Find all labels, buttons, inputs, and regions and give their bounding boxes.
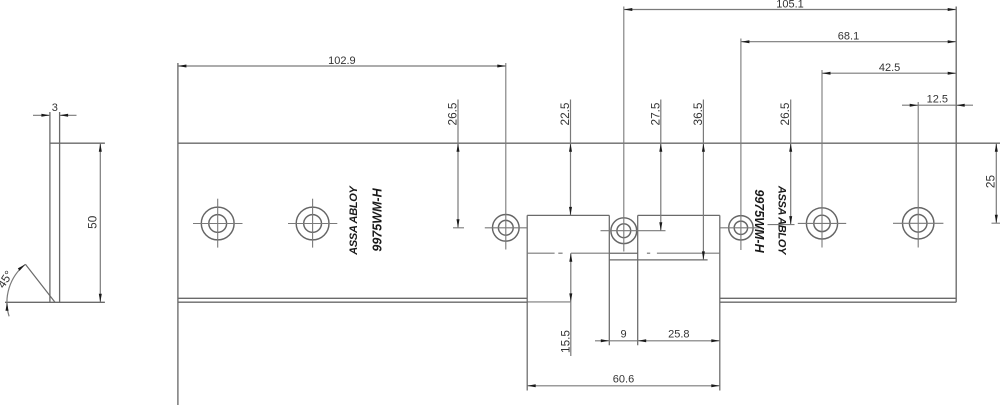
svg-text:3: 3 (52, 102, 58, 114)
hole 1 outer circle (201, 207, 234, 240)
hole 5 inner circle (734, 221, 747, 234)
center knuckle right edge (637, 215, 639, 345)
dimension 105.1 line (624, 9, 956, 11)
svg-text:22.5: 22.5 (558, 102, 572, 125)
svg-text:60.6: 60.6 (613, 374, 634, 386)
dimension 9 and 25.8 line (595, 340, 720, 342)
hole 5 outer circle (729, 216, 753, 240)
45 degree arc top arrow (18, 264, 26, 271)
dimension 3 line right tail (60, 114, 77, 116)
dimension 102.9 line (178, 65, 506, 67)
dimension 15.5 down arrow (569, 293, 572, 302)
dimension 25 tick (992, 222, 1000, 224)
plate left edge (177, 63, 179, 405)
svg-text:9975WM-H: 9975WM-H (371, 187, 385, 251)
hole 4 vertical centerline and 105.1 extension (623, 7, 625, 252)
dimension 12.5 right tail (956, 104, 973, 106)
dimension 60.6 right arrow (711, 384, 720, 387)
svg-text:9975WM-H: 9975WM-H (752, 189, 766, 253)
dimension 68.1 left arrow (741, 40, 750, 43)
dimension 25 down arrow (995, 215, 998, 224)
hinge pin centerline segment 2 (558, 252, 562, 254)
dimension 36.5 down arrow (702, 251, 705, 260)
dimension 50 line (99, 143, 101, 302)
hole 7 inner circle (909, 215, 927, 233)
hole 7 outer circle (903, 208, 934, 239)
dimension 12.5 line (902, 104, 956, 106)
svg-text:27.5: 27.5 (648, 102, 662, 125)
dimension 25 line (995, 143, 997, 223)
svg-text:12.5: 12.5 (927, 94, 948, 106)
plate right edge (955, 7, 957, 303)
dimension 9 left arrow (601, 339, 610, 342)
dimension 27.5 up arrow (659, 143, 662, 152)
dimension 60.6 line (527, 385, 720, 387)
dimension 26.5 right line (790, 100, 792, 225)
side view top edge (50, 142, 105, 144)
45 degree leader line (25, 264, 55, 302)
hole 3 horizontal centerline (485, 227, 527, 229)
hinge pin centerline segment 3 (571, 252, 609, 254)
hole 4 outer circle (611, 218, 637, 244)
dimension 25.8 left arrow (638, 339, 647, 342)
dimension 12.5 left arrow (910, 104, 919, 107)
hole 4 horizontal centerline (601, 230, 666, 232)
45 degree dimension arc (7, 264, 25, 316)
dimension 22.5 line (570, 100, 572, 216)
svg-text:50: 50 (86, 215, 100, 229)
dimension 50 down arrow (99, 294, 102, 303)
dimension 102.9 left arrow (178, 65, 187, 68)
plate top edge (178, 142, 1000, 144)
hole 6 inner circle (814, 215, 830, 231)
svg-text:ASSA ABLOY: ASSA ABLOY (775, 185, 787, 256)
hole 3 vertical centerline and 102.9 extension (505, 63, 507, 250)
dimension 42.5 right arrow (948, 72, 957, 75)
dimension 27.5 down arrow (659, 222, 662, 231)
svg-text:9: 9 (620, 329, 626, 341)
hole 3 outer circle (493, 215, 520, 242)
dimension 42.5 line (822, 72, 956, 74)
hole 1 horizontal centerline (193, 223, 243, 225)
dimension 26.5 left tick (453, 227, 464, 229)
dimension 102.9 right arrow (497, 65, 506, 68)
dimension 36.5 line (702, 100, 704, 260)
dimension 27.5 line (660, 100, 662, 231)
dimension 60.6 left arrow (527, 384, 536, 387)
hole 2 vertical centerline (312, 199, 314, 248)
dimension 105.1 left arrow (624, 8, 633, 11)
dimension 42.5 left arrow (822, 72, 831, 75)
dimension 15.5 line (570, 253, 572, 356)
dimension 26.5 right down arrow (789, 216, 792, 225)
knuckle left edge (526, 215, 528, 390)
hole 2 horizontal centerline (288, 223, 337, 225)
dimension 25.8 right arrow (711, 339, 720, 342)
plate bottom inner line right part (720, 297, 956, 299)
svg-text:42.5: 42.5 (879, 62, 900, 74)
hole 1 vertical centerline (217, 199, 219, 248)
hole 4 inner circle (617, 224, 631, 238)
knuckle bottom extension line (527, 301, 571, 303)
svg-text:102.9: 102.9 (328, 55, 356, 67)
dimension 68.1 right arrow (948, 40, 957, 43)
dimension 26.5 right up arrow (789, 143, 792, 152)
hole 5 vertical centerline and 68.1 extension (740, 39, 742, 251)
hole 3 inner circle (498, 220, 513, 235)
dimension 25 up arrow (995, 143, 998, 152)
hole 2 outer circle (296, 207, 329, 240)
dimension 26.5 right tick (768, 224, 795, 226)
svg-text:68.1: 68.1 (838, 31, 859, 43)
hinge pin centerline segment 1 (527, 252, 554, 254)
hinge pin centerline segment 5 (657, 252, 720, 254)
center knuckle left edge (608, 215, 610, 345)
hinge pin centerline segment 4 (647, 252, 650, 254)
45 degree arc bottom arrow (6, 302, 9, 311)
hole 6 outer circle (806, 208, 837, 239)
dimension 68.1 line (741, 41, 956, 43)
dimension 22.5 down arrow (569, 207, 572, 216)
hole 2 inner circle (304, 215, 322, 233)
dimension 36.5 up arrow (702, 143, 705, 152)
dimension 15.5 up arrow (569, 253, 572, 262)
knuckle top edge left part (527, 214, 609, 216)
knuckle right edge (719, 215, 721, 390)
svg-text:25: 25 (984, 175, 998, 189)
plate bottom outer line right part (720, 301, 956, 303)
svg-text:36.5: 36.5 (691, 102, 705, 125)
dimension 3 right arrow (60, 114, 69, 117)
dimension 3 left arrow (41, 114, 50, 117)
dimension 26.5 left down arrow (457, 219, 460, 228)
hole 7 horizontal centerline (893, 222, 943, 224)
side view plate left edge (49, 112, 51, 302)
center knuckle bottom upper line (609, 252, 637, 254)
plate bottom outer line left part (178, 301, 527, 303)
center knuckle bottom lower line with extension (609, 259, 707, 261)
svg-text:ASSA ABLOY: ASSA ABLOY (348, 184, 360, 255)
dimension 12.5 right arrow (956, 104, 965, 107)
svg-text:105.1: 105.1 (776, 0, 804, 10)
hole 6 horizontal centerline (798, 222, 846, 224)
hole 5 horizontal centerline (720, 227, 762, 229)
dimension 26.5 left line (457, 100, 459, 228)
svg-text:26.5: 26.5 (446, 102, 460, 125)
hole 7 vertical centerline and 12.5 extension (917, 102, 919, 248)
svg-text:15.5: 15.5 (558, 330, 572, 353)
dimension 22.5 up arrow (569, 143, 572, 152)
hole 6 vertical centerline and 42.5 extension (821, 70, 823, 248)
dimension 26.5 left up arrow (457, 143, 460, 152)
svg-text:45°: 45° (0, 268, 16, 291)
side view bottom baseline (5, 301, 105, 303)
hole 1 inner circle (209, 215, 227, 233)
side view plate right edge (59, 112, 61, 302)
dimension 3 line left tail (33, 114, 50, 116)
dimension 105.1 right arrow (948, 8, 957, 11)
plate bottom inner line left part (178, 297, 527, 299)
knuckle top edge right part (638, 214, 720, 216)
svg-text:26.5: 26.5 (778, 102, 792, 125)
svg-text:25.8: 25.8 (668, 329, 689, 341)
dimension 50 up arrow (99, 143, 102, 152)
